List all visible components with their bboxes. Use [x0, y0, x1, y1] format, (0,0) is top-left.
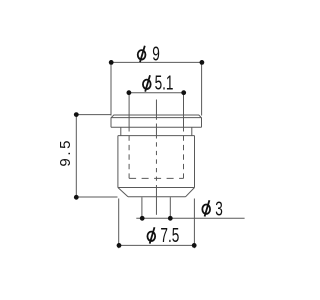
svg-text:5.1: 5.1: [155, 72, 174, 94]
svg-text:9.5: 9.5: [57, 138, 74, 167]
svg-text:9: 9: [152, 43, 160, 65]
svg-text:3: 3: [215, 198, 223, 220]
svg-text:7.5: 7.5: [160, 224, 179, 246]
